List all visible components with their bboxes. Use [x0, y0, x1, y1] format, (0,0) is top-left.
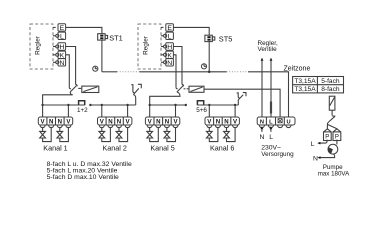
label Kanal 5 [150, 144, 174, 153]
svg-text:Regler: Regler [35, 35, 42, 55]
Kanal 2 bus wire with start dot [89, 104, 135, 106]
terminal strip Kanal 6 (V N N V) [205, 117, 239, 128]
valve actuator Kanal 6 #2 (hourglass) with loop to return terminal [224, 128, 236, 142]
wire E1 to connector ST1 [66, 27, 102, 33]
contact SP (pump link contact) [237, 93, 246, 100]
wire K1 down to contact S1 [66, 55, 70, 87]
terminal strip Kanal 1 (V N N V) [38, 117, 72, 128]
svg-text:U: U [286, 120, 290, 126]
svg-text:N: N [260, 120, 264, 126]
svg-text:Kanal 1: Kanal 1 [43, 144, 67, 153]
svg-text:L: L [269, 120, 273, 126]
junction dot Kanal6 V-left [208, 104, 210, 106]
wire ST5 down to time-zone line [208, 42, 210, 72]
svg-text:N: N [167, 60, 172, 67]
wire ST1 down to time-zone line [101, 40, 103, 72]
label Pumpe max 180VA [318, 164, 350, 177]
wire H2 down to contact S2 [173, 47, 182, 85]
wires bus to Kanal 2 V terminals [102, 105, 128, 117]
svg-text:N: N [224, 119, 228, 126]
svg-text:L: L [168, 33, 172, 40]
wire E2 to connector ST5 [173, 27, 209, 35]
wire left P to L arrow [311, 140, 327, 148]
wires bus to Kanal 1 V terminals [43, 105, 69, 117]
svg-text:max 180VA: max 180VA [318, 170, 350, 177]
svg-text:ST5: ST5 [219, 35, 233, 44]
svg-text:N: N [59, 60, 64, 67]
label Kanal 1 [43, 144, 67, 153]
connector ST5 [205, 35, 232, 44]
wire contact S2 to Kanal 5 bus [150, 92, 180, 105]
junction dot Kanal1 V-left [41, 104, 43, 106]
wires bus to Kanal 6 V terminals [209, 105, 235, 117]
valve actuator Kanal 6 #1 (hourglass) with loop to return terminal [206, 128, 218, 142]
terminal E1 of Regler 1 [53, 24, 66, 32]
junction dot Kanal6 V-right [234, 104, 236, 106]
svg-text:Kanal 5: Kanal 5 [150, 144, 174, 153]
svg-text:N: N [165, 119, 169, 126]
svg-text:Kanal 6: Kanal 6 [210, 144, 234, 153]
terminal strip Kanal 5 (V N N V) [145, 117, 179, 128]
wire H1 down to contact S1 [66, 47, 76, 85]
valve actuator Kanal 5 #2 (hourglass) with loop to return terminal [164, 128, 176, 142]
svg-text:T3,15A: T3,15A [294, 86, 316, 93]
time-zone line to supply terminal 4 [248, 72, 289, 117]
wire right P down to pump [336, 140, 338, 145]
Kanal 5 bus wire with end dot [150, 104, 187, 106]
svg-text:1+2: 1+2 [77, 107, 88, 114]
controller U1 'Regler' dashed enclosure [30, 24, 53, 69]
switch blade to P terminals [327, 116, 337, 129]
contact SA (link contact for Kanal 2) [131, 84, 141, 94]
connector ST1 [98, 33, 123, 42]
wire contact S1 to Kanal 1 bus [43, 92, 73, 105]
terminal P right with roof [333, 129, 341, 141]
terminal H1 of Regler 1 [53, 43, 66, 51]
svg-text:L: L [60, 33, 64, 40]
svg-text:5+6: 5+6 [196, 107, 207, 114]
label Kanal 6 [210, 144, 234, 153]
Kanal 6 bus wire [197, 104, 238, 106]
mechanical link contact S1 to coil K1 [78, 87, 81, 89]
time-zone line solid middle segment [140, 71, 227, 73]
svg-text:Regler: Regler [143, 35, 150, 55]
legend line 1 [47, 161, 132, 168]
svg-text:T3,15A: T3,15A [294, 78, 316, 85]
svg-text:N: N [313, 155, 318, 162]
terminal E2 of Regler 2 [161, 24, 173, 32]
pump symbol (circle with wedge) [328, 144, 338, 154]
label Zeitzone [284, 65, 311, 72]
label Kanal 2 [103, 144, 127, 153]
svg-text:Versorgung: Versorgung [261, 151, 294, 158]
svg-text:N: N [117, 119, 121, 126]
controller U2 'Regler' dashed enclosure [138, 24, 161, 69]
Kanal 1 bus wire [43, 104, 85, 106]
wire fuse to pump switch [331, 110, 333, 115]
supply terminal strip (N L X U) [257, 117, 295, 128]
svg-text:5-fach: 5-fach [321, 78, 340, 85]
svg-text:E: E [167, 25, 172, 32]
terminal L1 of Regler 1 [53, 32, 66, 40]
arrow up into supply L from mains [269, 126, 273, 141]
junction dot Kanal2 V-left [101, 104, 103, 106]
junction dot Kanal5 V-left [149, 104, 151, 106]
fuse rating table T3,15A [293, 77, 344, 94]
wire coil K2 to supply terminal 3 [204, 89, 280, 117]
svg-text:5-fach D max.10 Ventile: 5-fach D max.10 Ventile [47, 174, 119, 181]
svg-text:8-fach: 8-fach [321, 86, 340, 93]
valve actuator Kanal 5 #1 (hourglass) with loop to return terminal [147, 128, 159, 142]
terminal L2 of Regler 2 [161, 32, 173, 40]
arrow up into supply N from mains [259, 126, 264, 141]
svg-text:Ventile: Ventile [258, 46, 278, 53]
arrow up L-feed to Regler/Ventile [270, 58, 273, 117]
jumper 1+2 (channel link bridge) [77, 101, 88, 114]
svg-text:N: N [156, 119, 160, 126]
svg-text:ST1: ST1 [109, 33, 123, 42]
label 230V~ Versorgung [261, 144, 294, 158]
wires bus to Kanal 5 V terminals [150, 105, 176, 117]
svg-text:L: L [269, 134, 273, 141]
mechanical link contact S2 to coil K2 [184, 88, 189, 90]
valve actuator Kanal 1 #1 (hourglass) with loop to return terminal [40, 128, 52, 142]
time-zone line dotted segment left [117, 71, 140, 73]
svg-text:N: N [259, 134, 264, 141]
wire K2 down to contact S2 [173, 55, 176, 87]
valve actuator Kanal 1 #2 (hourglass) with loop to return terminal [57, 128, 69, 142]
svg-text:N: N [216, 119, 220, 126]
contact S1 (Regler 1 output switch) [69, 85, 77, 92]
junction dot at ST5 drop [208, 71, 211, 74]
clock symbol near ST5 junction [201, 64, 206, 69]
svg-text:L: L [311, 141, 315, 148]
terminal strip Kanal 2 (V N N V) [98, 117, 132, 128]
terminal H2 of Regler 2 [161, 43, 173, 51]
wire pump to N arrow [313, 154, 335, 163]
wire contact SA down to Kanal 2 bus end [133, 95, 135, 105]
svg-text:E: E [60, 25, 65, 32]
terminal N2 of Regler 2 [161, 59, 173, 67]
terminal K2 of Regler 2 [161, 51, 173, 59]
relay coil K1 (box with diagonal) [82, 86, 99, 92]
svg-text:N: N [108, 119, 112, 126]
svg-text:N: N [49, 119, 53, 126]
contact S2 (Regler 2 output switch) [176, 85, 184, 92]
svg-text:N: N [58, 119, 62, 126]
relay coil K2 (box with diagonal) [189, 86, 204, 92]
svg-text:Kanal 2: Kanal 2 [103, 144, 127, 153]
svg-text:H: H [59, 44, 64, 51]
junction dot Kanal1 V-right [67, 104, 69, 106]
terminal P left with roof [324, 129, 332, 141]
wire Kanal 6 bus end up to contact SP [237, 100, 239, 105]
fuse on L feed (filled bar) [270, 102, 272, 114]
terminal N1 of Regler 1 [53, 59, 66, 67]
svg-text:Zeitzone: Zeitzone [284, 65, 311, 72]
svg-text:H: H [167, 44, 172, 51]
label Regler, Ventile [258, 40, 278, 53]
arrow up N-feed to Regler/Ventile [261, 58, 264, 117]
time-zone line dotted segment right [227, 71, 249, 73]
terminal K1 of Regler 1 [53, 51, 66, 59]
clock symbol near ST1 drop [93, 66, 98, 71]
legend line 3 [47, 174, 119, 181]
legend line 2 [47, 168, 118, 175]
fuse F-pump (box with diagonal) [329, 96, 335, 110]
valve actuator Kanal 2 #2 (hourglass) with loop to return terminal [116, 128, 128, 142]
time-zone line solid segment from ST1 [102, 71, 117, 73]
junction dot Kanal2 V-right [126, 104, 128, 106]
valve actuator Kanal 2 #1 (hourglass) with loop to return terminal [99, 128, 111, 142]
junction dot Kanal5 V-right [174, 104, 176, 106]
jumper 5+6 (channel link bridge) [196, 101, 207, 115]
